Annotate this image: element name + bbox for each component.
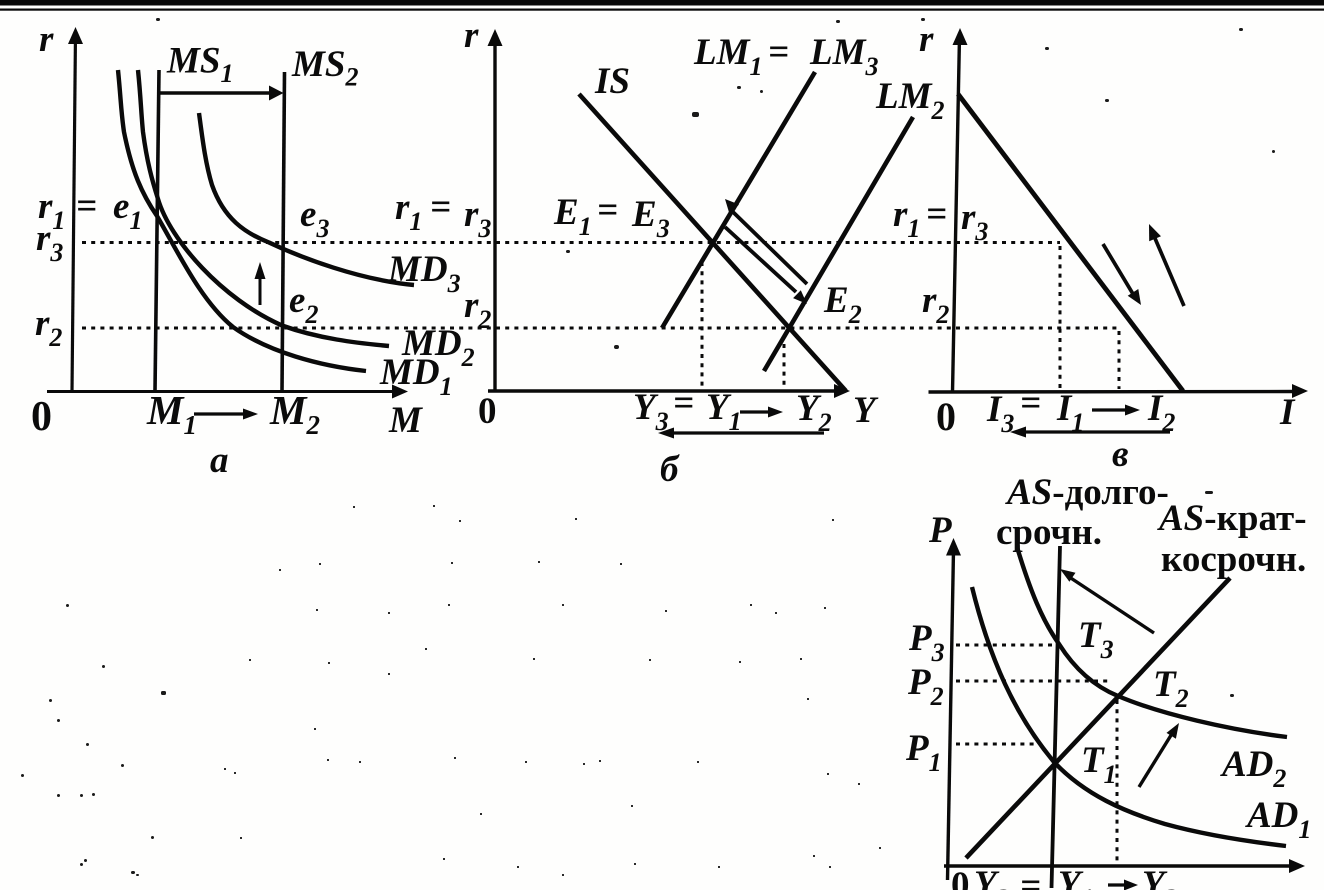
svg-text:а: а <box>210 440 229 481</box>
svg-text:r1: r1 <box>893 194 920 243</box>
svg-text:I3: I3 <box>986 389 1014 438</box>
svg-text:Y3: Y3 <box>974 864 1010 890</box>
svg-text:e1: e1 <box>113 186 142 235</box>
svg-text:=: = <box>597 190 618 231</box>
svg-text:I: I <box>1279 392 1296 433</box>
svg-text:r: r <box>919 19 934 60</box>
svg-text:P1: P1 <box>905 728 942 777</box>
svg-text:E2: E2 <box>823 280 862 329</box>
svg-text:=: = <box>673 383 694 424</box>
svg-text:=: = <box>926 194 947 235</box>
svg-text:AS-долго-: AS-долго- <box>1005 472 1169 513</box>
svg-text:E3: E3 <box>631 194 670 243</box>
svg-text:MD3: MD3 <box>387 249 461 298</box>
svg-text:0: 0 <box>936 394 956 439</box>
svg-text:=: = <box>768 32 789 73</box>
svg-text:e2: e2 <box>289 280 318 329</box>
svg-text:T2: T2 <box>1153 664 1189 713</box>
svg-text:T3: T3 <box>1078 615 1114 664</box>
svg-text:Y1: Y1 <box>706 387 742 436</box>
svg-text:T1: T1 <box>1081 740 1117 789</box>
svg-text:LM3: LM3 <box>809 32 879 81</box>
svg-text:Y3: Y3 <box>633 387 669 436</box>
svg-text:r1: r1 <box>395 187 422 236</box>
svg-text:=: = <box>430 187 451 228</box>
svg-text:=: = <box>1020 383 1041 424</box>
svg-text:0: 0 <box>31 394 52 440</box>
svg-text:AS-крат-: AS-крат- <box>1157 498 1307 539</box>
svg-text:E1: E1 <box>553 192 592 241</box>
svg-text:I1: I1 <box>1056 388 1084 437</box>
svg-text:в: в <box>1112 434 1129 475</box>
svg-text:Y2: Y2 <box>1142 864 1178 890</box>
svg-text:M2: M2 <box>269 387 320 440</box>
svg-text:Y: Y <box>853 390 879 431</box>
svg-text:IS: IS <box>594 61 630 102</box>
svg-text:LM1: LM1 <box>693 32 763 81</box>
svg-text:0: 0 <box>478 391 497 432</box>
svg-text:r2: r2 <box>35 303 62 352</box>
svg-text:MS2: MS2 <box>291 44 358 92</box>
svg-text:б: б <box>660 449 680 490</box>
svg-text:AD1: AD1 <box>1245 795 1311 844</box>
svg-text:LM2: LM2 <box>875 76 945 125</box>
svg-text:r2: r2 <box>464 285 491 334</box>
svg-text:0: 0 <box>951 865 970 890</box>
svg-text:MS1: MS1 <box>166 41 233 89</box>
svg-text:r2: r2 <box>922 280 949 329</box>
svg-text:r: r <box>39 19 54 60</box>
svg-text:r: r <box>464 15 479 56</box>
svg-text:I2: I2 <box>1147 388 1175 437</box>
svg-text:=: = <box>1020 866 1041 890</box>
svg-text:Y2: Y2 <box>796 388 832 437</box>
svg-text:P3: P3 <box>908 618 945 667</box>
svg-text:AD2: AD2 <box>1220 744 1286 793</box>
svg-text:M1: M1 <box>146 387 197 440</box>
svg-text:M: M <box>388 400 423 441</box>
svg-text:r3: r3 <box>961 197 988 246</box>
svg-text:=: = <box>76 186 97 227</box>
svg-text:косрочн.: косрочн. <box>1161 539 1306 580</box>
svg-text:r3: r3 <box>464 194 491 243</box>
svg-text:e3: e3 <box>300 194 329 243</box>
svg-text:Y1: Y1 <box>1058 864 1094 890</box>
svg-text:P2: P2 <box>907 662 944 711</box>
svg-text:срочн.: срочн. <box>996 512 1102 553</box>
svg-text:P: P <box>928 510 952 551</box>
